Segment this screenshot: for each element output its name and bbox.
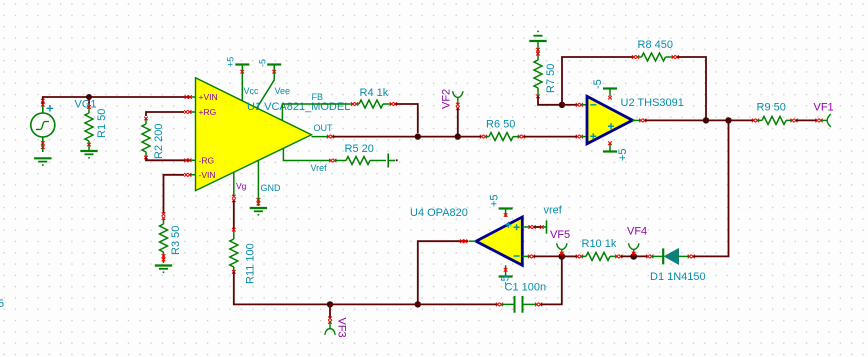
terminal VF1 hook xyxy=(821,114,831,127)
wire net VG1 to +VIN (top input line) xyxy=(43,97,190,104)
pin x marks C1 right xyxy=(535,303,539,307)
pin x marks R9 left xyxy=(752,119,756,123)
svg-text:U1 VCA821_MODEL: U1 VCA821_MODEL xyxy=(247,101,350,113)
resistor R7 xyxy=(534,42,542,96)
plus marker U4 input xyxy=(514,224,520,230)
diode D1 1N4150 xyxy=(652,248,689,264)
node junction VG1/R1 xyxy=(86,94,92,100)
svg-text:R1 50: R1 50 xyxy=(96,109,108,138)
op-amp U1 VCA821 body xyxy=(196,78,312,191)
pin GND of U1 xyxy=(257,160,259,206)
pin +5 supply of U2 xyxy=(609,144,611,151)
node junction U4 output/rail xyxy=(415,301,421,307)
ground below GND pin xyxy=(250,208,267,215)
wire U2 output line xyxy=(645,119,753,121)
wire R4 to OUT node xyxy=(395,104,418,133)
pin stub U2 -input xyxy=(581,104,586,106)
pin x marks R6 right xyxy=(518,135,522,139)
svg-text:+5: +5 xyxy=(489,194,501,207)
ground below VG1 xyxy=(34,158,51,165)
jumper termination after R5 xyxy=(388,154,395,168)
supply bar -5 U2 xyxy=(603,87,617,89)
svg-text:R11 100: R11 100 xyxy=(245,243,257,284)
pin x marks R10 left xyxy=(576,255,580,259)
svg-text:VF2: VF2 xyxy=(441,89,453,109)
pin stubs U1 left edge xyxy=(190,97,196,175)
svg-text:R5 20: R5 20 xyxy=(345,143,374,155)
ground below R1 xyxy=(80,151,97,158)
pin x marks R10 right xyxy=(615,255,619,259)
pin x marks D1 left xyxy=(646,255,650,259)
pin Vref of U1 xyxy=(283,148,330,160)
plus marker U2 power xyxy=(608,123,614,129)
pin x marks R2 xyxy=(144,117,148,121)
capacitor C1 xyxy=(501,296,536,313)
wire -VIN branch xyxy=(164,175,185,213)
svg-text:+VIN: +VIN xyxy=(199,92,218,102)
wire Vg to R11 xyxy=(233,200,235,229)
pin x marks OUT xyxy=(327,135,331,139)
op-amp U2 THS3091 body xyxy=(587,96,633,144)
wire R8 down to output line xyxy=(677,57,706,120)
pin x marks VG1 bottom xyxy=(41,141,45,145)
pin x marks VF1 xyxy=(815,119,819,123)
svg-text:VF4: VF4 xyxy=(627,226,647,238)
supply bar +5 for Vcc xyxy=(235,63,249,65)
pin FB of U1 xyxy=(282,104,352,121)
wire R2 bottom to -RG xyxy=(146,158,190,161)
pin x marks U2 output xyxy=(639,119,643,123)
wire +input to vref terminal xyxy=(534,226,541,228)
pin x marks R4 right xyxy=(390,102,394,106)
svg-text:VF3: VF3 xyxy=(336,318,348,338)
resistor R4 xyxy=(356,100,391,108)
svg-text:U2 THS3091: U2 THS3091 xyxy=(621,97,684,109)
pin x marks GND xyxy=(257,198,261,202)
voltage pin VF3 hook (flipped) xyxy=(329,304,331,317)
ground below R3 xyxy=(155,266,172,273)
resistor R6 xyxy=(485,133,519,141)
pin Vg of U1 xyxy=(233,172,235,196)
svg-text:-RG: -RG xyxy=(199,155,215,165)
supply bar -5 U4 xyxy=(499,275,513,277)
resistor R3 xyxy=(160,218,168,263)
svg-text:Vcc: Vcc xyxy=(244,86,260,96)
pin x marks R8 left xyxy=(632,55,636,59)
node junction feedback/output xyxy=(703,117,709,123)
pin x marks U4 output xyxy=(460,239,464,243)
plus marker of VG1 xyxy=(47,105,54,112)
svg-text:+5: +5 xyxy=(617,148,629,161)
wire R1 branch stub xyxy=(88,97,90,105)
svg-text:-VIN: -VIN xyxy=(199,170,216,180)
wire +RG branch xyxy=(146,112,184,116)
svg-text:5: 5 xyxy=(0,298,4,310)
svg-text:R6 50: R6 50 xyxy=(486,119,515,131)
voltage pin VF4 hook xyxy=(629,243,639,256)
svg-text:Vref: Vref xyxy=(311,163,328,173)
wire rail VF3 to C1 xyxy=(330,303,497,305)
pin x marks R11 xyxy=(232,228,236,232)
pin x marks R8 right xyxy=(672,55,676,59)
pin x marks U4 -input xyxy=(528,255,532,259)
svg-text:R3 50: R3 50 xyxy=(170,226,182,255)
pin Vee of U1 (diagonal) xyxy=(257,66,275,109)
pin stub U4 +input to vref xyxy=(522,226,529,228)
plus marker U2 input xyxy=(590,133,596,139)
wire R11 to bottom rail xyxy=(234,272,330,305)
svg-text:D1 1N4150: D1 1N4150 xyxy=(650,271,706,283)
pin x marks FB / R4 left xyxy=(351,102,355,106)
voltage pin VF2 hook xyxy=(453,91,463,104)
minus marker U2 xyxy=(590,104,596,106)
svg-text:VF5: VF5 xyxy=(550,229,570,241)
svg-text:Vee: Vee xyxy=(275,86,291,96)
pin x marks VF2 xyxy=(456,103,460,107)
resistor R2 xyxy=(142,118,150,157)
terminal vref bar xyxy=(543,220,547,233)
wire feedback up to R8 xyxy=(562,57,633,105)
node junction diode branch/output xyxy=(725,117,731,123)
svg-text:FB: FB xyxy=(312,92,324,102)
svg-text:-5: -5 xyxy=(592,79,604,89)
supply bar +5 U4 xyxy=(499,207,513,209)
pin stub U2 output xyxy=(633,119,641,121)
resistor R10 xyxy=(581,252,616,260)
wire VF2 to OUT line xyxy=(457,108,459,136)
wire R9 to VF1 xyxy=(796,119,817,121)
svg-text:C1 100n: C1 100n xyxy=(505,282,547,294)
svg-text:vref: vref xyxy=(544,205,563,217)
wire OUT line to R6 xyxy=(458,136,481,138)
voltage source VG1 xyxy=(31,105,55,152)
pin x marks R3 xyxy=(162,212,166,216)
wire R10 to VF4 node xyxy=(621,255,647,257)
ground above R7 (flipped) xyxy=(529,31,546,41)
pin OUT of U1 xyxy=(312,136,329,138)
svg-text:Vg: Vg xyxy=(236,181,247,191)
pin x marks VG1 top xyxy=(41,99,45,103)
svg-text:R9 50: R9 50 xyxy=(757,102,786,114)
node junction VF3 xyxy=(327,301,333,307)
wire U4 output loop to bottom rail xyxy=(418,241,468,304)
pin x marks Vg xyxy=(232,195,236,199)
pin stub U4 -input xyxy=(522,255,529,257)
pin stub U2 +input xyxy=(581,136,586,138)
pin x marks U4 +input xyxy=(529,225,533,229)
svg-text:R7 50: R7 50 xyxy=(545,64,557,93)
svg-text:R2 200: R2 200 xyxy=(153,124,165,159)
supply bar +5 U2 xyxy=(603,150,617,152)
pin x marks U1 left pins xyxy=(185,95,189,99)
pin x marks R1 xyxy=(87,105,91,109)
wire OUT to junction xyxy=(332,136,455,138)
svg-text:R8 450: R8 450 xyxy=(638,39,673,51)
wire R6 to U2 +input xyxy=(523,136,577,138)
svg-text:OUT: OUT xyxy=(314,123,334,133)
op-amp U4 OPA820 body (points left) xyxy=(476,217,522,265)
jumper end dot xyxy=(396,159,398,161)
plus marker U4 power xyxy=(505,222,511,228)
svg-text:VG1: VG1 xyxy=(75,99,97,111)
wire -input to VF5 node xyxy=(533,255,562,257)
pin stub U4 output xyxy=(469,240,477,242)
pin x marks R7 xyxy=(536,48,540,52)
pin x marks U2 -input xyxy=(576,103,580,107)
pin x marks C1 left xyxy=(496,303,500,307)
pin x marks R6 left xyxy=(480,135,484,139)
resistor R8 xyxy=(637,53,672,61)
wire junction to U2 -input xyxy=(562,104,577,106)
pin x marks R9 right xyxy=(790,119,794,123)
pin -5 supply of U4 xyxy=(505,265,507,275)
pin +5 supply of U4 xyxy=(505,210,507,218)
pin Vcc of U1 xyxy=(241,66,243,101)
resistor R9 xyxy=(757,116,791,124)
node junction OUT/R4 xyxy=(415,133,421,139)
voltage pin VF5 hook xyxy=(557,243,567,256)
svg-text:+RG: +RG xyxy=(199,107,217,117)
wire D1 up to output line xyxy=(693,120,728,256)
node junction R7/feedback/-input xyxy=(559,102,565,108)
wire R7 to -input node xyxy=(538,96,560,105)
pin x marks Vref / R5 left xyxy=(329,159,333,163)
wire VF5 node to R10 xyxy=(562,255,577,257)
pin x marks U2 +input xyxy=(576,135,580,139)
node junction VF2/OUT xyxy=(455,133,461,139)
pin x marks D1 right xyxy=(688,255,692,259)
pin -5 supply of U2 xyxy=(609,90,611,97)
svg-text:R4 1k: R4 1k xyxy=(360,87,389,99)
resistor R1 xyxy=(85,105,93,150)
pin x mark vref terminal xyxy=(540,225,544,229)
svg-text:R10 1k: R10 1k xyxy=(582,238,617,250)
svg-text:GND: GND xyxy=(261,183,282,193)
svg-text:VF1: VF1 xyxy=(814,102,834,114)
node junction VF5 xyxy=(558,253,565,260)
supply bar -5 for Vee xyxy=(267,63,281,65)
resistor R11 xyxy=(230,229,238,272)
svg-text:+5: +5 xyxy=(226,57,236,67)
resistor R5 xyxy=(335,157,386,165)
minus marker U4 xyxy=(514,255,520,257)
wire C1 to VF5 node xyxy=(540,256,561,304)
svg-text:-5: -5 xyxy=(258,59,268,67)
node junction VF4 xyxy=(630,253,637,260)
svg-text:U4 OPA820: U4 OPA820 xyxy=(410,207,468,219)
